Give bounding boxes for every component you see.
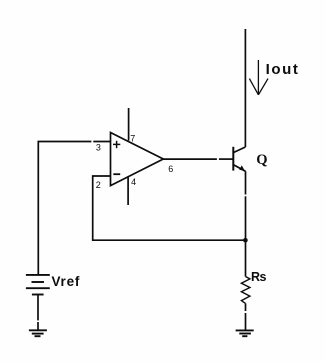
pin 4 power line bbox=[127, 177, 129, 205]
ground (right) bbox=[236, 330, 254, 336]
wire pin2 feedback (left, down, across to emitter node) bbox=[93, 176, 246, 240]
Iout current arrow bbox=[249, 60, 268, 95]
ground (left) bbox=[29, 330, 47, 336]
node junction dot (emitter / feedback) bbox=[243, 238, 248, 243]
wire pin3 to Vref (left branch) bbox=[38, 142, 91, 275]
wire emitter upper segment bbox=[245, 171, 247, 194]
pin 7 power line bbox=[128, 108, 130, 141]
svg-text:4: 4 bbox=[131, 177, 136, 187]
op-amp U1 triangle bbox=[111, 133, 164, 186]
wire pin3 stub (gap at x~92) bbox=[93, 141, 110, 143]
svg-text:Q: Q bbox=[256, 152, 267, 168]
wire op-amp output segment bbox=[163, 158, 217, 160]
op-amp plus input marker bbox=[113, 141, 120, 148]
wire resistor to ground lower bbox=[245, 313, 247, 330]
wire battery to ground lower bbox=[37, 322, 39, 330]
resistor Rs zigzag bbox=[241, 277, 250, 304]
battery Vref plates bbox=[26, 275, 50, 295]
transistor Q (NPN) bbox=[233, 147, 245, 172]
svg-text:6: 6 bbox=[168, 164, 173, 174]
svg-text:7: 7 bbox=[130, 134, 135, 144]
svg-text:3: 3 bbox=[96, 143, 101, 153]
op-amp minus input marker bbox=[113, 173, 120, 175]
wire base stub bbox=[219, 158, 233, 160]
svg-text:Vref: Vref bbox=[52, 274, 81, 289]
wire battery to ground upper bbox=[37, 295, 39, 321]
wire resistor to ground upper bbox=[245, 303, 247, 311]
wire emitter lower segment to resistor bbox=[245, 196, 247, 276]
svg-text:Iout: Iout bbox=[266, 61, 300, 78]
wire collector vertical (top rail to Q collector) bbox=[244, 29, 246, 147]
svg-text:2: 2 bbox=[96, 180, 101, 190]
svg-text:Rs: Rs bbox=[251, 270, 267, 284]
